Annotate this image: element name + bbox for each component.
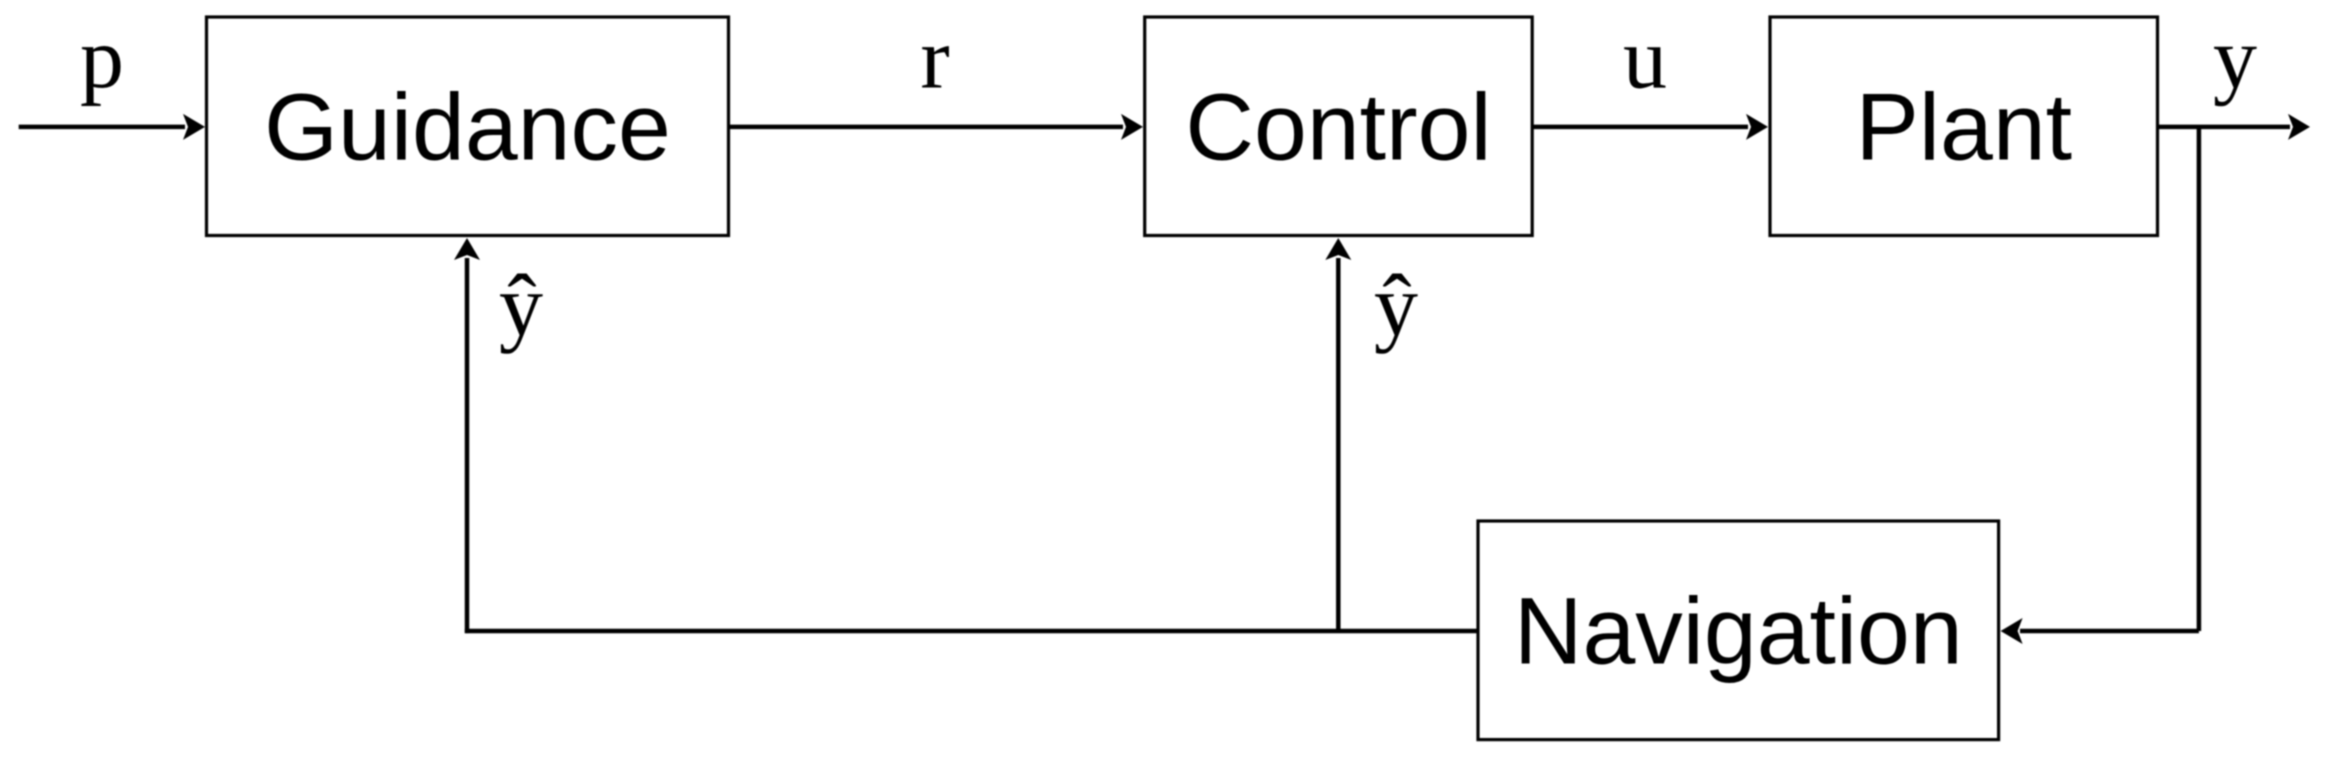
svg-text:p: p (80, 11, 124, 108)
wire y Plant output (2158, 125, 2291, 130)
svg-text:Navigation: Navigation (1514, 579, 1963, 685)
wire branch up into Control (1336, 258, 1341, 631)
arrowhead yhat into Control (1325, 238, 1351, 260)
svg-text:Guidance: Guidance (264, 75, 671, 181)
wire up into Guidance (465, 258, 470, 633)
block Navigation (1478, 521, 1999, 740)
arrowhead r into Control (1121, 114, 1143, 140)
wire p input (19, 125, 185, 130)
arrowhead yhat into Guidance (454, 238, 480, 260)
wire feedback drop from y junction (2197, 127, 2202, 631)
arrowhead p into Guidance (183, 114, 205, 140)
svg-text:y: y (2213, 11, 2257, 108)
wire u Control to Plant (1532, 125, 1748, 130)
wire Navigation output left (465, 629, 1478, 634)
arrowhead u into Plant (1746, 114, 1768, 140)
svg-text:ŷ: ŷ (1374, 258, 1418, 355)
svg-text:u: u (1623, 11, 1667, 108)
block Plant (1770, 17, 2158, 236)
svg-text:Control: Control (1185, 75, 1491, 181)
block Control (1145, 17, 1533, 236)
svg-text:ŷ: ŷ (499, 258, 543, 355)
wire r Guidance to Control (729, 125, 1124, 130)
svg-text:Plant: Plant (1856, 75, 2073, 181)
arrowhead into Navigation (2001, 618, 2023, 644)
wire feedback to Navigation (2020, 629, 2199, 634)
arrowhead y output (2288, 114, 2310, 140)
block Guidance (207, 17, 729, 236)
svg-text:r: r (920, 11, 949, 108)
